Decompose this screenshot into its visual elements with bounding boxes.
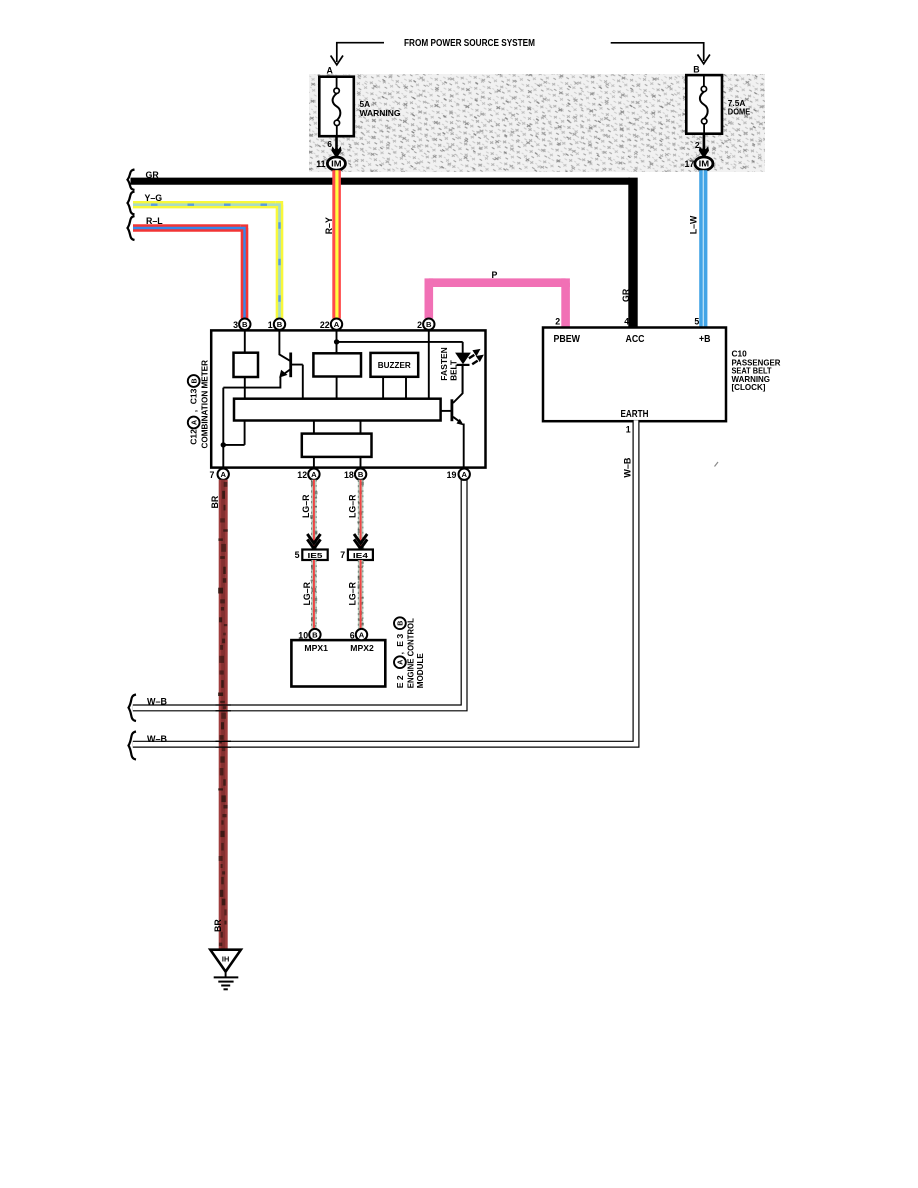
- IC block U1: [313, 353, 361, 376]
- svg-text:BELT: BELT: [449, 360, 459, 381]
- svg-text:ACC: ACC: [626, 334, 645, 345]
- svg-text:FROM POWER SOURCE SYSTEM: FROM POWER SOURCE SYSTEM: [404, 37, 535, 49]
- wire pin3 to resistor R1: [244, 330, 246, 399]
- wire LG-R (IE4 to ECM pin 6): [358, 560, 363, 629]
- svg-text:11: 11: [316, 159, 325, 169]
- wire GR label (vertical): [621, 288, 631, 302]
- brace Y-G: [128, 192, 135, 215]
- svg-text:2: 2: [555, 317, 560, 327]
- svg-text:B: B: [192, 378, 199, 383]
- wire W-B from clock EARTH (ground run): [133, 421, 636, 744]
- svg-text:BR: BR: [210, 495, 220, 508]
- svg-text:LG–R: LG–R: [348, 581, 358, 605]
- svg-text:DOME: DOME: [728, 107, 751, 117]
- wire LG-R label upper-left: [301, 494, 311, 518]
- unit label E2 A, E3 B (rotated): [394, 617, 406, 688]
- wire L-W label: [689, 215, 699, 234]
- svg-text:BUZZER: BUZZER: [378, 361, 411, 370]
- connector 6 A: [350, 629, 367, 640]
- svg-text:B: B: [358, 470, 364, 479]
- wire feed B from power source: [611, 43, 704, 61]
- arrow fuse A to IM: [335, 136, 338, 149]
- svg-text:1: 1: [626, 425, 631, 435]
- svg-text:,: ,: [189, 410, 199, 412]
- svg-text:PBEW: PBEW: [554, 334, 581, 345]
- engine control module box: [291, 640, 385, 686]
- svg-text:C13: C13: [189, 388, 199, 404]
- svg-text:LG–R: LG–R: [301, 494, 311, 518]
- svg-text:22: 22: [320, 320, 330, 330]
- svg-text:MPX1: MPX1: [304, 643, 328, 653]
- connector IM (B side): [695, 157, 713, 170]
- svg-text:2: 2: [417, 320, 422, 330]
- wire Q1 emitter to pin7 run: [223, 377, 280, 468]
- connector 19 A: [447, 469, 470, 480]
- svg-text:2: 2: [695, 140, 700, 150]
- arrows into IE5: [307, 534, 320, 549]
- clock unit C10 box: [543, 328, 726, 422]
- wire R-Y label: [324, 217, 334, 234]
- wire junction to bus bottom: [223, 421, 244, 445]
- wire W-B EARTH label: [623, 458, 633, 478]
- wire Y-G: [133, 201, 280, 319]
- svg-text:7: 7: [340, 550, 345, 560]
- svg-text:19: 19: [447, 470, 457, 480]
- arrow into fuse B: [698, 55, 710, 64]
- wire R-Y (fuse A to meter pin 22): [332, 170, 341, 318]
- svg-text:3: 3: [233, 320, 238, 330]
- connector 12 A: [297, 469, 319, 480]
- svg-text:17: 17: [685, 159, 695, 169]
- svg-text:GR: GR: [146, 170, 160, 180]
- connector IE4 box: [348, 550, 373, 561]
- svg-text:IE5: IE5: [308, 551, 324, 560]
- svg-text:B: B: [693, 65, 699, 75]
- wire LG-R (IE5 to ECM pin 10): [312, 560, 317, 629]
- svg-text:BR: BR: [213, 919, 223, 932]
- svg-text:W–B: W–B: [147, 697, 167, 707]
- brace W-B lower: [129, 732, 137, 760]
- svg-text:W–B: W–B: [623, 458, 633, 478]
- svg-text:A: A: [327, 66, 334, 76]
- brace W-B upper: [129, 695, 137, 722]
- svg-text:7: 7: [209, 470, 214, 480]
- wire P (meter pin 2 to clock PBEW): [429, 283, 566, 328]
- transistor Q1: [289, 353, 292, 378]
- svg-text:1: 1: [268, 320, 273, 330]
- connector 7 A: [209, 469, 228, 480]
- W-B lines crossing over BR wire: [216, 705, 232, 747]
- svg-text:Y–G: Y–G: [145, 193, 163, 203]
- U2 leads: [314, 421, 361, 468]
- svg-text:IM: IM: [699, 160, 710, 169]
- svg-text:MODULE: MODULE: [415, 653, 425, 688]
- fuse F1 box (5A WARNING): [319, 77, 354, 137]
- unit label MODULE (rotated): [415, 653, 425, 688]
- wire LG-R (pin 12 to IE5): [312, 480, 317, 550]
- svg-text:E 3: E 3: [395, 634, 405, 647]
- junction node pin22 branch: [334, 339, 339, 344]
- connector 2 B: [417, 319, 434, 330]
- svg-text:IE4: IE4: [353, 551, 369, 560]
- wire feed A from power source: [337, 43, 384, 62]
- connector 3 B: [233, 319, 250, 330]
- svg-text:+B: +B: [699, 334, 711, 345]
- svg-text:P: P: [492, 270, 498, 280]
- buzzer leads: [383, 377, 406, 399]
- svg-text:A: A: [220, 470, 226, 479]
- wire R-L: [133, 224, 245, 318]
- wire pin22 down: [336, 330, 338, 399]
- scan tick mark: [715, 462, 719, 467]
- resistor block R1: [234, 353, 259, 377]
- unit label ENGINE CONTROL (rotated): [406, 618, 416, 688]
- junction block hatched band: [309, 74, 765, 172]
- svg-text:LG–R: LG–R: [302, 581, 312, 605]
- unit label C12 A, C13 B (rotated): [188, 375, 200, 445]
- svg-text:A: A: [398, 660, 405, 665]
- svg-text:GR: GR: [621, 288, 631, 302]
- svg-text:R–Y: R–Y: [324, 217, 334, 234]
- svg-text:IH: IH: [222, 955, 229, 964]
- connector IE5 box: [302, 550, 327, 561]
- svg-text:C12: C12: [189, 429, 199, 445]
- svg-text:B: B: [277, 320, 283, 329]
- svg-text:10: 10: [298, 630, 308, 640]
- svg-text:MPX2: MPX2: [350, 643, 374, 653]
- svg-text:18: 18: [344, 470, 354, 480]
- fuse F2 box (7.5A DOME): [686, 75, 722, 134]
- wire L-W (fuse B to clock +B): [699, 170, 707, 327]
- svg-text:EARTH: EARTH: [621, 409, 649, 420]
- connector 10 B: [298, 629, 320, 640]
- wire W-B from meter pin 19 (ground run): [133, 480, 464, 708]
- svg-text:5: 5: [295, 550, 300, 560]
- svg-text:A: A: [359, 631, 365, 640]
- svg-text:W–B: W–B: [147, 734, 167, 744]
- wire BR label lower: [213, 919, 223, 932]
- svg-text:5: 5: [694, 317, 699, 327]
- transistor Q2: [450, 399, 453, 421]
- svg-text:6: 6: [350, 630, 355, 640]
- wire GR thick (to ACC): [131, 178, 631, 185]
- connector 22 A: [320, 319, 342, 330]
- wire pin2 internal: [428, 330, 430, 399]
- svg-text:,: ,: [395, 652, 405, 654]
- wire junction to LED anode: [337, 342, 463, 353]
- svg-text:A: A: [192, 420, 199, 425]
- svg-text:WARNING: WARNING: [360, 108, 401, 118]
- fuse F1 element: [333, 77, 341, 137]
- svg-text:COMBINATION METER: COMBINATION METER: [200, 360, 210, 449]
- svg-text:R–L: R–L: [146, 216, 163, 226]
- fuse F2 element: [700, 75, 708, 134]
- wire LG-R label right pair upper: [348, 494, 358, 518]
- connector IM (A side): [327, 157, 345, 170]
- wire BR (pin 7 to ground IH): [221, 480, 226, 950]
- svg-text:E 2: E 2: [395, 675, 405, 688]
- svg-text:LG–R: LG–R: [348, 494, 358, 518]
- arrow fuse B to IM: [703, 134, 706, 150]
- connector 18 B: [344, 469, 366, 480]
- wire LG-R (pin 18 to IE4): [358, 480, 363, 551]
- svg-text:L–W: L–W: [689, 215, 699, 234]
- svg-text:6: 6: [327, 139, 332, 149]
- svg-text:IM: IM: [331, 160, 342, 169]
- wire Q2 emitter to pin 19: [463, 424, 465, 468]
- junction node (emitter/pin7): [221, 442, 226, 447]
- LED light arrows: [469, 355, 474, 359]
- ground symbol IH: [210, 950, 241, 972]
- unit label COMBINATION METER (rotated): [200, 360, 210, 449]
- brace R-L: [128, 216, 135, 240]
- connector 1 B: [268, 319, 285, 330]
- ground stem: [225, 972, 227, 977]
- svg-text:B: B: [242, 320, 248, 329]
- svg-text:[CLOCK]: [CLOCK]: [732, 382, 766, 392]
- logic block U2: [302, 434, 372, 457]
- bus bar block: [234, 399, 441, 421]
- LED D1 fasten belt indicator: [455, 353, 471, 365]
- svg-text:A: A: [461, 470, 467, 479]
- svg-text:A: A: [311, 470, 317, 479]
- svg-text:A: A: [334, 320, 340, 329]
- buzzer BZ1 box: [371, 353, 419, 377]
- svg-text:12: 12: [297, 470, 307, 480]
- wire BR label upper: [210, 495, 220, 508]
- wire LG-R label lower-left: [302, 581, 312, 605]
- arrow into fuse A: [331, 56, 343, 65]
- earth strokes: [214, 976, 239, 978]
- svg-text:B: B: [312, 631, 318, 640]
- arrows into IE4: [354, 534, 367, 549]
- label FASTEN BELT (rotated): [439, 347, 449, 381]
- svg-text:B: B: [398, 621, 405, 626]
- svg-text:4: 4: [624, 317, 629, 327]
- brace GR: [128, 170, 135, 191]
- combination meter box C12/C13: [211, 330, 485, 467]
- wire LG-R label right pair lower: [348, 581, 358, 605]
- wire pin1 to transistor Q1 collector: [279, 330, 290, 361]
- svg-text:B: B: [426, 320, 432, 329]
